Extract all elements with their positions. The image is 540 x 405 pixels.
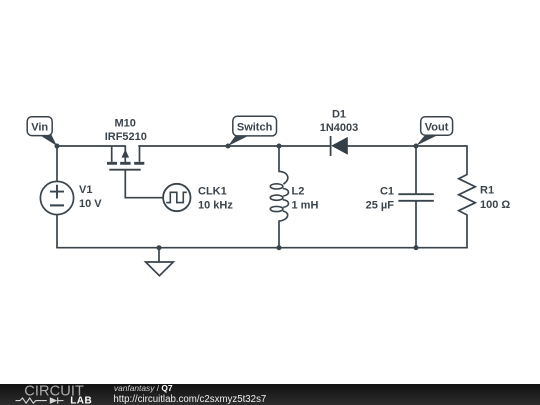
svg-text:10 kHz: 10 kHz xyxy=(198,200,233,212)
svg-text:D1: D1 xyxy=(332,109,346,121)
svg-text:Vout: Vout xyxy=(425,122,449,134)
svg-text:M10: M10 xyxy=(114,118,135,130)
svg-text:Switch: Switch xyxy=(237,121,273,133)
svg-text:1 mH: 1 mH xyxy=(292,200,319,212)
svg-text:CLK1: CLK1 xyxy=(198,186,227,198)
svg-text:LAB: LAB xyxy=(70,396,92,405)
svg-text:10 V: 10 V xyxy=(79,198,102,210)
svg-text:vanfantasy / Q7: vanfantasy / Q7 xyxy=(114,383,173,393)
svg-text:C1: C1 xyxy=(380,186,394,198)
svg-text:Vin: Vin xyxy=(31,122,48,134)
svg-text:L2: L2 xyxy=(292,186,305,198)
svg-text:V1: V1 xyxy=(79,184,92,196)
svg-text:IRF5210: IRF5210 xyxy=(105,131,147,143)
svg-text:1N4003: 1N4003 xyxy=(320,122,359,134)
svg-text:25 µF: 25 µF xyxy=(366,200,395,212)
svg-text:R1: R1 xyxy=(480,185,494,197)
svg-text:100 Ω: 100 Ω xyxy=(480,199,510,211)
svg-text:http://circuitlab.com/c2sxmyz5: http://circuitlab.com/c2sxmyz5t32s7 xyxy=(113,394,266,405)
